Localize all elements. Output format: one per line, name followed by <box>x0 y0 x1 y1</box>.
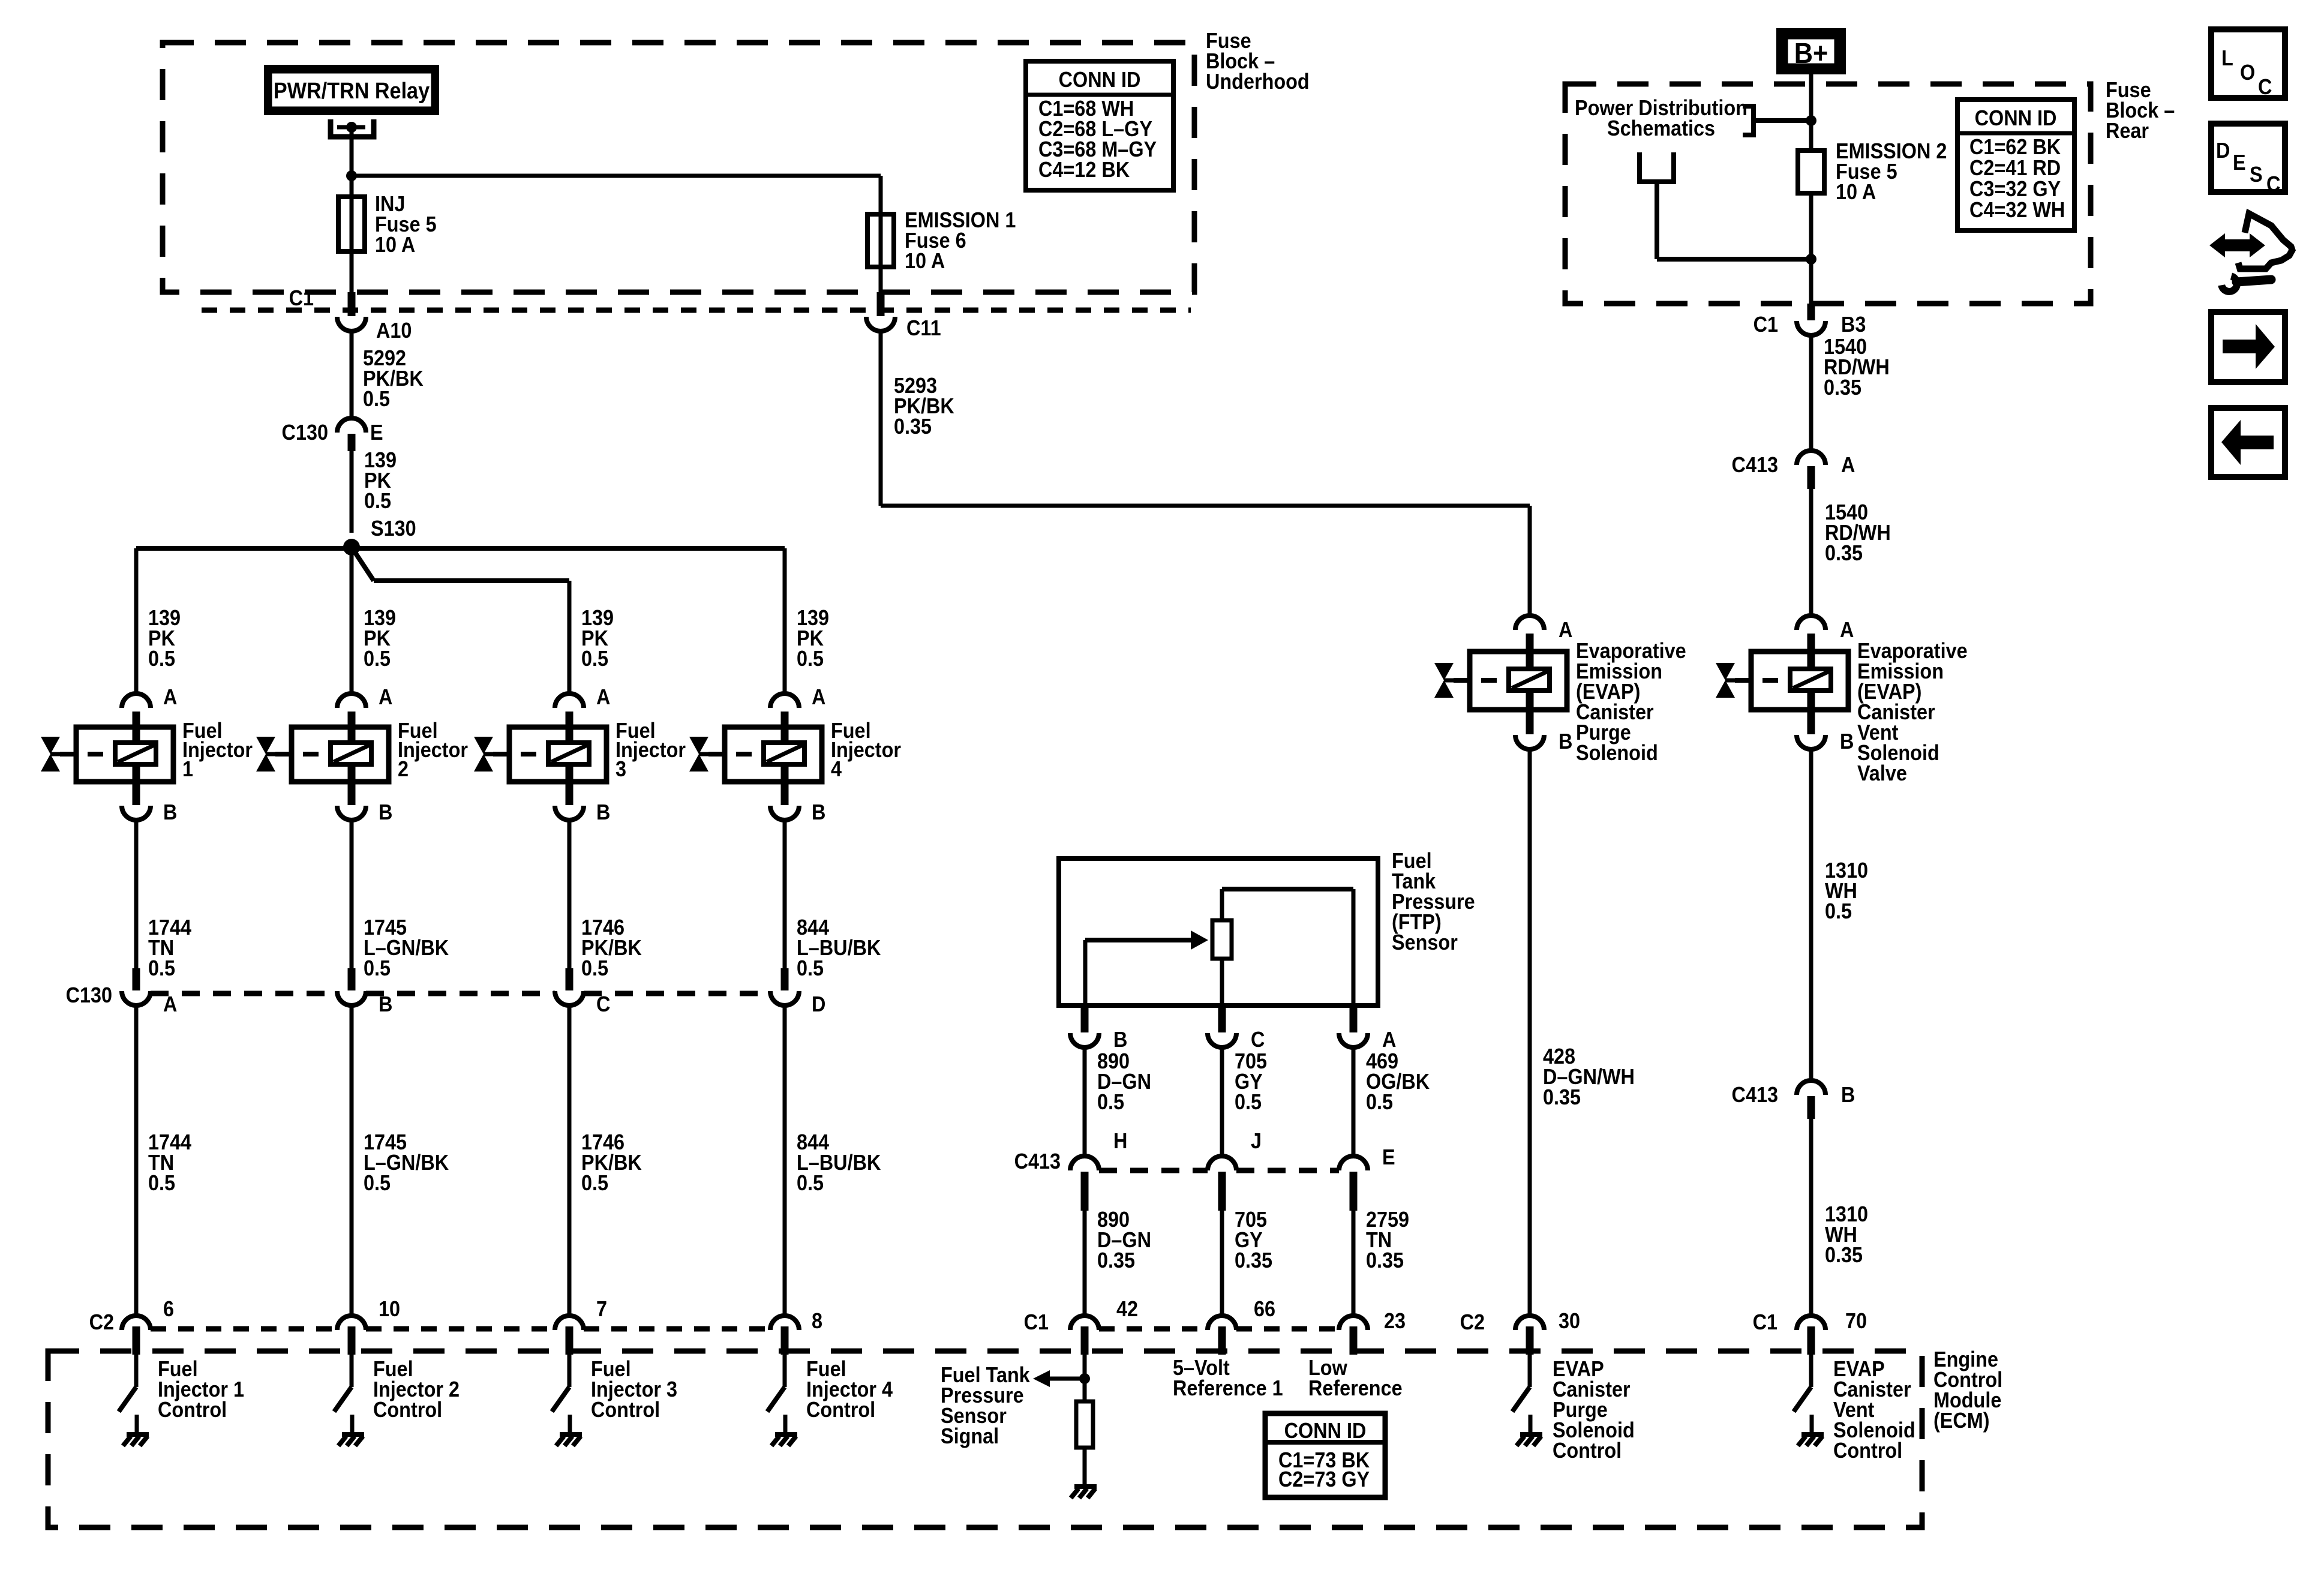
svg-text:Control: Control <box>158 1398 227 1422</box>
svg-text:C413: C413 <box>1732 453 1778 477</box>
svg-text:Reference 1: Reference 1 <box>1173 1376 1283 1400</box>
svg-text:B: B <box>1841 1083 1855 1107</box>
svg-text:Control: Control <box>591 1398 660 1422</box>
svg-text:0.5: 0.5 <box>148 647 175 671</box>
svg-text:70: 70 <box>1845 1309 1867 1333</box>
svg-text:C2: C2 <box>89 1310 114 1334</box>
svg-text:0.5: 0.5 <box>581 956 608 980</box>
svg-text:0.5: 0.5 <box>797 956 824 980</box>
svg-text:4: 4 <box>831 757 842 781</box>
svg-text:10: 10 <box>379 1297 400 1321</box>
svg-text:0.5: 0.5 <box>797 647 824 671</box>
svg-text:Signal: Signal <box>941 1424 999 1448</box>
svg-text:L: L <box>2221 46 2233 70</box>
svg-text:C1: C1 <box>1024 1310 1049 1334</box>
svg-text:C413: C413 <box>1732 1083 1778 1107</box>
svg-text:Rear: Rear <box>2106 119 2149 143</box>
svg-text:0.5: 0.5 <box>1366 1090 1393 1114</box>
svg-text:0.5: 0.5 <box>1235 1090 1262 1114</box>
svg-text:C2=73 GY: C2=73 GY <box>1278 1467 1370 1491</box>
svg-text:(ECM): (ECM) <box>1933 1409 1990 1433</box>
svg-text:S130: S130 <box>371 517 416 541</box>
svg-text:B: B <box>596 800 610 824</box>
svg-text:A: A <box>1840 618 1854 642</box>
svg-text:10 A: 10 A <box>1836 180 1876 204</box>
svg-text:10 A: 10 A <box>375 233 415 257</box>
svg-text:C1: C1 <box>289 286 314 310</box>
svg-text:C413: C413 <box>1014 1149 1061 1173</box>
svg-text:C130: C130 <box>282 421 328 445</box>
svg-text:Reference: Reference <box>1308 1376 1403 1400</box>
svg-text:42: 42 <box>1116 1297 1138 1321</box>
svg-text:0.5: 0.5 <box>148 956 175 980</box>
svg-text:B3: B3 <box>1841 313 1866 337</box>
svg-text:C: C <box>2258 75 2272 99</box>
svg-text:CONN ID: CONN ID <box>1284 1419 1367 1443</box>
svg-text:Control: Control <box>373 1398 442 1422</box>
svg-text:0.5: 0.5 <box>363 387 390 411</box>
svg-text:0.5: 0.5 <box>1825 899 1852 923</box>
svg-text:C2: C2 <box>1460 1310 1485 1334</box>
svg-text:23: 23 <box>1384 1309 1406 1333</box>
svg-text:S: S <box>2250 163 2263 187</box>
svg-text:Control: Control <box>806 1398 875 1422</box>
svg-text:0.35: 0.35 <box>1235 1248 1272 1272</box>
svg-text:0.35: 0.35 <box>1825 541 1863 565</box>
svg-text:E: E <box>370 421 383 445</box>
svg-text:0.35: 0.35 <box>1543 1085 1581 1109</box>
svg-text:Schematics: Schematics <box>1607 116 1715 140</box>
svg-text:0.5: 0.5 <box>364 1171 391 1195</box>
svg-text:2: 2 <box>398 757 409 781</box>
svg-text:C1: C1 <box>1753 1310 1777 1334</box>
svg-text:A: A <box>1841 453 1855 477</box>
svg-text:B: B <box>379 800 392 824</box>
svg-text:A: A <box>596 685 610 709</box>
svg-text:0.35: 0.35 <box>894 415 932 439</box>
svg-text:1: 1 <box>182 757 193 781</box>
svg-text:B: B <box>812 800 825 824</box>
svg-text:CONN ID: CONN ID <box>1975 106 2057 130</box>
svg-text:0.5: 0.5 <box>797 1171 824 1195</box>
svg-text:C: C <box>1251 1028 1265 1052</box>
svg-text:8: 8 <box>812 1309 822 1333</box>
svg-text:0.35: 0.35 <box>1097 1248 1135 1272</box>
svg-text:Sensor: Sensor <box>1392 930 1458 954</box>
svg-text:A10: A10 <box>376 319 412 343</box>
svg-text:Underhood: Underhood <box>1206 70 1310 94</box>
svg-text:0.35: 0.35 <box>1825 1243 1863 1267</box>
svg-text:A: A <box>379 685 392 709</box>
svg-text:B: B <box>1559 730 1572 754</box>
svg-text:J: J <box>1251 1129 1262 1153</box>
svg-text:A: A <box>1559 618 1572 642</box>
svg-text:0.5: 0.5 <box>364 956 391 980</box>
svg-text:30: 30 <box>1559 1309 1580 1333</box>
svg-text:C11: C11 <box>906 316 941 340</box>
svg-text:O: O <box>2240 61 2255 85</box>
svg-text:3: 3 <box>615 757 626 781</box>
svg-text:C4=32 WH: C4=32 WH <box>1969 198 2065 222</box>
svg-text:6: 6 <box>163 1297 174 1321</box>
svg-text:C130: C130 <box>66 983 112 1007</box>
svg-text:C1: C1 <box>1753 313 1778 337</box>
svg-text:0.35: 0.35 <box>1366 1248 1404 1272</box>
svg-text:A: A <box>163 685 177 709</box>
svg-text:B+: B+ <box>1794 37 1828 70</box>
svg-text:C1=62 BK: C1=62 BK <box>1969 135 2061 159</box>
svg-text:0.5: 0.5 <box>581 1171 608 1195</box>
svg-text:10 A: 10 A <box>905 249 945 273</box>
svg-text:C3=32 GY: C3=32 GY <box>1969 177 2061 201</box>
svg-text:E: E <box>2233 151 2246 175</box>
svg-text:0.5: 0.5 <box>148 1171 175 1195</box>
svg-text:D: D <box>812 992 825 1016</box>
svg-text:C2=41 RD: C2=41 RD <box>1969 156 2061 180</box>
svg-text:CONN ID: CONN ID <box>1059 68 1141 92</box>
svg-text:0.5: 0.5 <box>364 647 391 671</box>
svg-text:Solenoid: Solenoid <box>1576 741 1658 765</box>
svg-text:B: B <box>1113 1028 1127 1052</box>
svg-text:C4=12 BK: C4=12 BK <box>1038 158 1130 182</box>
svg-text:66: 66 <box>1254 1297 1275 1321</box>
svg-text:0.5: 0.5 <box>581 647 608 671</box>
svg-text:C: C <box>2266 172 2280 196</box>
svg-text:A: A <box>812 685 825 709</box>
svg-text:0.35: 0.35 <box>1824 376 1861 400</box>
svg-text:PWR/TRN Relay: PWR/TRN Relay <box>274 77 430 103</box>
svg-text:Control: Control <box>1553 1439 1622 1463</box>
svg-text:H: H <box>1113 1129 1127 1153</box>
svg-text:0.5: 0.5 <box>1097 1090 1124 1114</box>
svg-text:B: B <box>163 800 177 824</box>
svg-text:E: E <box>1382 1145 1395 1169</box>
svg-text:D: D <box>2216 139 2230 163</box>
svg-text:B: B <box>1840 730 1854 754</box>
svg-text:7: 7 <box>596 1297 607 1321</box>
svg-text:Control: Control <box>1833 1439 1902 1463</box>
svg-text:Valve: Valve <box>1857 761 1907 785</box>
svg-text:A: A <box>1382 1028 1396 1052</box>
svg-text:0.5: 0.5 <box>364 489 391 513</box>
